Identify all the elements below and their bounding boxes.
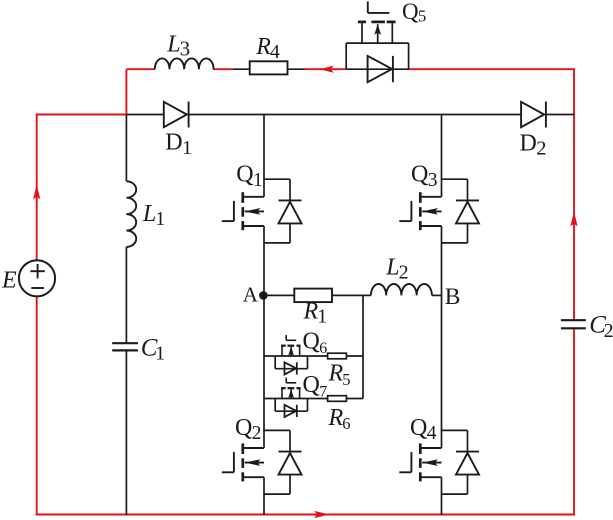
wire red between R4 and Q5 xyxy=(305,68,346,70)
wire below C1 xyxy=(125,350,127,515)
svg-text:R: R xyxy=(328,405,344,431)
svg-text:6: 6 xyxy=(319,340,327,357)
svg-text:2: 2 xyxy=(252,423,262,444)
wire R1 to L2 xyxy=(332,294,371,296)
wire R6 to riser xyxy=(346,398,363,400)
diode D2 xyxy=(521,102,544,127)
wire R5 to riser xyxy=(346,355,363,357)
svg-text:L: L xyxy=(166,31,180,57)
svg-text:Q: Q xyxy=(303,329,320,355)
transistor Q2 xyxy=(222,430,302,495)
inductor L1 xyxy=(126,181,136,247)
svg-text:2: 2 xyxy=(604,320,613,342)
wire bus to Q1 xyxy=(263,115,265,181)
inductor L2 xyxy=(371,284,432,295)
svg-text:Q: Q xyxy=(411,162,428,188)
wire bus to Q3 xyxy=(441,115,443,181)
svg-text:D: D xyxy=(165,130,182,156)
wire Q4 to bottom bus xyxy=(441,494,443,515)
resistor R4 xyxy=(250,61,288,74)
svg-text:L: L xyxy=(142,201,156,227)
transistor Q1 xyxy=(222,178,302,243)
svg-text:1: 1 xyxy=(155,343,165,365)
wire red bottom bus xyxy=(36,514,575,516)
transistor Q5 (MOSFET with series diode loop) xyxy=(346,1,408,82)
resistor R6 xyxy=(328,396,347,402)
svg-text:Q: Q xyxy=(402,0,419,24)
capacitor C1 xyxy=(112,342,138,344)
svg-text:R: R xyxy=(303,299,319,325)
wire Q1 to node A xyxy=(263,243,265,296)
current arrow up on right wire xyxy=(570,211,577,226)
wire red right vertical lower xyxy=(573,328,575,515)
node A junction dot xyxy=(259,291,268,300)
wire top bus right segment xyxy=(546,114,575,116)
svg-text:5: 5 xyxy=(342,370,350,389)
svg-text:1: 1 xyxy=(155,208,165,230)
wire red left vertical (E branch) xyxy=(36,114,38,261)
current arrow up on left wire xyxy=(33,184,40,199)
wire black after L3 xyxy=(233,68,250,70)
svg-text:3: 3 xyxy=(428,170,438,191)
current arrow right on bottom bus xyxy=(314,511,329,518)
wire red from Q5 to top-right corner xyxy=(408,68,574,70)
transistor Q4 xyxy=(399,430,479,495)
diode D1 xyxy=(164,102,187,127)
svg-text:5: 5 xyxy=(418,6,426,25)
transistor Q7 xyxy=(275,378,307,417)
wire Q3 to node B xyxy=(441,243,443,296)
svg-text:Q: Q xyxy=(235,415,252,441)
svg-text:L: L xyxy=(385,254,399,280)
svg-text:1: 1 xyxy=(182,137,192,159)
svg-text:4: 4 xyxy=(270,41,280,63)
wire Q7 branch xyxy=(264,398,328,400)
current arrow left before Q5 xyxy=(320,66,334,73)
inductor L3 xyxy=(155,58,214,69)
svg-text:Q: Q xyxy=(236,162,253,188)
transistor Q3 xyxy=(399,178,479,243)
wire top bus middle segment xyxy=(189,114,521,116)
svg-text:R: R xyxy=(255,34,271,60)
wire red right vertical upper xyxy=(573,68,575,320)
wire black after R4 xyxy=(288,68,306,70)
transistor Q6 xyxy=(275,335,307,374)
svg-text:7: 7 xyxy=(319,383,327,400)
svg-text:B: B xyxy=(445,284,461,310)
svg-text:2: 2 xyxy=(399,262,409,284)
resistor R5 xyxy=(328,353,347,359)
svg-text:6: 6 xyxy=(342,414,350,433)
wire red L3 feed xyxy=(126,68,154,70)
svg-text:D: D xyxy=(520,130,537,156)
svg-text:3: 3 xyxy=(180,37,191,61)
svg-text:R: R xyxy=(328,361,344,387)
svg-text:1: 1 xyxy=(253,170,263,191)
svg-text:A: A xyxy=(243,282,259,306)
wire Q6 branch xyxy=(264,355,328,357)
svg-text:Q: Q xyxy=(410,415,427,441)
svg-text:1: 1 xyxy=(317,306,327,328)
wire between L1 and C1 xyxy=(125,247,127,343)
voltage source E xyxy=(19,260,55,296)
wire node A to R1 xyxy=(264,294,294,296)
wire L2 to node B xyxy=(432,294,442,296)
svg-text:2: 2 xyxy=(536,138,546,160)
svg-text:Q: Q xyxy=(303,372,320,398)
wire red between L3 and R4 xyxy=(213,68,233,70)
wire red corner riser at x=126 xyxy=(125,69,127,114)
capacitor C2 xyxy=(561,319,586,321)
wire top bus left segment xyxy=(126,114,163,116)
wire node A to Q2 xyxy=(263,295,265,431)
wire junction riser x=363 xyxy=(362,295,364,398)
svg-text:4: 4 xyxy=(427,423,437,444)
wire red top-left horizontal xyxy=(36,114,127,116)
wire L1 branch upper xyxy=(125,115,127,182)
wire node B to Q4 xyxy=(441,295,443,431)
svg-text:E: E xyxy=(1,267,17,293)
resistor R1 xyxy=(294,289,332,303)
wire Q2 to bottom bus xyxy=(263,494,265,515)
